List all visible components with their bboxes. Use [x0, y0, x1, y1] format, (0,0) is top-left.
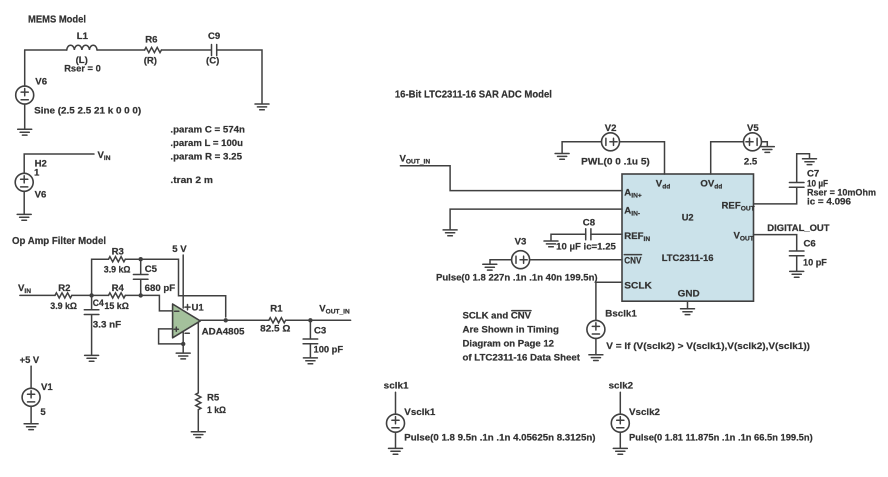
svg-text:LTC2311-16: LTC2311-16 [662, 253, 714, 264]
svg-text:VOUT_IN: VOUT_IN [400, 153, 431, 165]
svg-text:+5 V: +5 V [20, 355, 40, 366]
svg-text:Vsclk1: Vsclk1 [404, 407, 436, 418]
svg-text:C3: C3 [314, 325, 326, 336]
svg-text:ADA4805: ADA4805 [202, 326, 246, 337]
svg-text:Sine (2.5 2.5 21 k 0 0 0): Sine (2.5 2.5 21 k 0 0 0) [34, 105, 141, 116]
svg-text:GND: GND [678, 288, 700, 299]
svg-text:SCLK: SCLK [624, 280, 652, 291]
svg-text:C5: C5 [145, 264, 158, 275]
svg-text:V2: V2 [605, 123, 617, 134]
svg-text:R2: R2 [58, 283, 70, 294]
svg-text:VIN: VIN [98, 150, 111, 162]
svg-text:Pulse(0 1.81 11.875n .1n .1n 6: Pulse(0 1.81 11.875n .1n .1n 66.5n 199.5… [629, 432, 813, 443]
svg-text:Bsclk1: Bsclk1 [605, 308, 637, 319]
svg-text:C6: C6 [804, 239, 816, 250]
svg-text:R1: R1 [270, 303, 283, 314]
svg-text:V = If (V(sclk2) > V(sclk1),V(: V = If (V(sclk2) > V(sclk1),V(sclk2),V(s… [606, 341, 810, 352]
svg-text:PWL(0 0 .1u 5): PWL(0 0 .1u 5) [581, 156, 650, 167]
svg-text:.param L = 100u: .param L = 100u [170, 138, 243, 149]
svg-text:SCLK and CNV: SCLK and CNV [463, 310, 532, 321]
svg-text:82.5 Ω: 82.5 Ω [260, 323, 291, 334]
svg-text:R6: R6 [145, 34, 157, 45]
svg-text:sclk1: sclk1 [384, 380, 409, 391]
svg-text:V6: V6 [35, 189, 47, 200]
svg-text:10 µF ic=1.25: 10 µF ic=1.25 [556, 242, 616, 253]
svg-text:C9: C9 [208, 31, 220, 42]
svg-text:sclk2: sclk2 [609, 380, 634, 391]
svg-text:V1: V1 [41, 382, 53, 393]
svg-text:680 pF: 680 pF [145, 283, 176, 294]
svg-text:10 pF: 10 pF [803, 258, 827, 269]
svg-text:5 V: 5 V [172, 244, 187, 255]
svg-text:3.9 kΩ: 3.9 kΩ [104, 264, 131, 275]
svg-text:MEMS Model: MEMS Model [28, 14, 86, 25]
svg-text:R3: R3 [112, 246, 124, 257]
svg-text:1 kΩ: 1 kΩ [207, 405, 226, 416]
svg-text:Op Amp Filter Model: Op Amp Filter Model [12, 236, 106, 247]
svg-text:3.3 nF: 3.3 nF [93, 319, 121, 330]
svg-text:100 pF: 100 pF [314, 345, 344, 356]
svg-text:Pulse(0 1.8 227n .1n .1n 40n 1: Pulse(0 1.8 227n .1n .1n 40n 199.5n) [436, 272, 598, 283]
svg-text:ic = 4.096: ic = 4.096 [807, 197, 851, 208]
svg-text:L1: L1 [77, 31, 89, 42]
svg-text:U1: U1 [192, 302, 205, 313]
svg-text:U2: U2 [682, 212, 694, 223]
svg-text:2.5: 2.5 [744, 156, 758, 167]
svg-text:(R): (R) [144, 56, 157, 67]
svg-text:R4: R4 [112, 283, 125, 294]
svg-text:(C): (C) [206, 56, 219, 67]
svg-text:3.9 kΩ: 3.9 kΩ [50, 301, 77, 312]
svg-text:V3: V3 [515, 237, 527, 248]
svg-text:Rser = 0: Rser = 0 [64, 64, 101, 75]
svg-text:R5: R5 [207, 392, 220, 403]
svg-text:V6: V6 [35, 77, 47, 88]
svg-text:1: 1 [34, 168, 40, 179]
svg-text:DIGITAL_OUT: DIGITAL_OUT [767, 223, 829, 234]
svg-text:.tran 2 m: .tran 2 m [170, 175, 213, 186]
svg-text:16-Bit LTC2311-16 SAR ADC Mode: 16-Bit LTC2311-16 SAR ADC Model [395, 89, 552, 100]
svg-text:V5: V5 [747, 123, 759, 134]
svg-text:.param R = 3.25: .param R = 3.25 [170, 152, 242, 163]
svg-text:5: 5 [40, 407, 46, 418]
svg-text:VOUT_IN: VOUT_IN [319, 303, 350, 315]
svg-text:Pulse(0 1.8 9.5n .1n .1n 4.056: Pulse(0 1.8 9.5n .1n .1n 4.05625n 8.3125… [404, 432, 595, 443]
svg-text:C8: C8 [583, 218, 596, 229]
svg-text:Are Shown in Timing: Are Shown in Timing [463, 325, 560, 336]
svg-text:15 kΩ: 15 kΩ [104, 301, 129, 312]
svg-text:Diagram on Page 12: Diagram on Page 12 [463, 338, 555, 349]
svg-text:.param C = 574n: .param C = 574n [170, 124, 245, 135]
svg-text:of LTC2311-16 Data Sheet: of LTC2311-16 Data Sheet [463, 352, 581, 363]
svg-text:C4: C4 [93, 298, 105, 309]
svg-text:VIN: VIN [18, 283, 31, 295]
svg-text:Vsclk2: Vsclk2 [629, 407, 660, 418]
svg-text:CNV: CNV [624, 256, 642, 267]
